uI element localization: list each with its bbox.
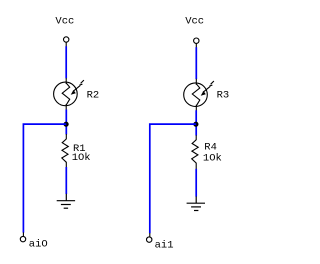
svg-text:R3: R3 — [217, 89, 230, 101]
terminal ai1 — [147, 233, 152, 242]
wire Vcc to R2 (left) — [65, 46, 67, 78]
resistor R1 — [62, 134, 69, 167]
svg-text:1Ok: 1Ok — [203, 153, 222, 165]
terminal Vcc (right) — [194, 38, 199, 48]
wire node B to ai1 — [150, 124, 196, 233]
photoresistor R2 — [54, 78, 84, 110]
wire Vcc to R3 (right) — [195, 47, 197, 79]
wire R3 to node B / R4 — [195, 110, 197, 135]
wire node A to ai0 — [23, 124, 66, 233]
node A junction (left) — [64, 122, 69, 127]
resistor R4 — [192, 135, 199, 169]
svg-text:ai1: ai1 — [155, 240, 174, 252]
photoresistor R3 — [184, 79, 214, 111]
node B junction (right) — [193, 122, 198, 127]
wire R1 to ground (left) — [65, 167, 67, 194]
svg-text:1Ok: 1Ok — [72, 152, 91, 164]
terminal ai0 — [20, 232, 25, 241]
ground (left) — [57, 194, 75, 208]
svg-text:aiO: aiO — [29, 239, 48, 251]
terminal Vcc (left) — [63, 37, 68, 47]
svg-text:Vcc: Vcc — [55, 16, 74, 28]
wire R2 to node A / R1 — [65, 110, 67, 135]
ground (right) — [187, 196, 205, 210]
svg-text:R2: R2 — [87, 89, 100, 101]
wire R4 to ground (right) — [195, 169, 197, 197]
svg-text:Vcc: Vcc — [185, 16, 204, 28]
